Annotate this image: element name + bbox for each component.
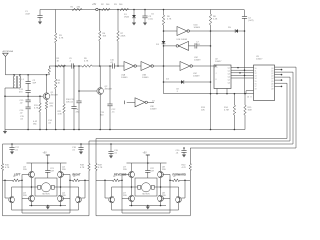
ground	[132, 23, 136, 26]
wire top rail M2	[127, 162, 167, 164]
wire base column left M1	[21, 175, 23, 199]
wire top rail M1	[27, 162, 67, 164]
resistor R6	[163, 9, 165, 11]
wire base column right M1	[69, 175, 71, 199]
ground M1	[47, 206, 49, 207]
wire driver left collector M1	[12, 187, 32, 197]
resistor base left M1	[3, 179, 13, 181]
wire base column right M2	[169, 175, 171, 199]
motor M2	[135, 178, 157, 196]
op-amp U1F spare	[127, 101, 135, 103]
svg-text:1/4027: 1/4027	[215, 61, 222, 63]
ground M2	[147, 206, 149, 207]
svg-text:J: J	[216, 73, 217, 75]
svg-text:1/4069: 1/4069	[150, 109, 157, 111]
wire bus line A	[190, 147, 296, 149]
svg-text:CL: CL	[216, 67, 218, 69]
svg-text:LEFT: LEFT	[14, 172, 21, 176]
wire input left M2	[95, 139, 97, 164]
svg-text:56P: 56P	[33, 83, 37, 85]
svg-text:1/4017: 1/4017	[256, 59, 263, 61]
wire driver right collector M2	[161, 187, 179, 197]
svg-text:1/4069: 1/4069	[194, 27, 201, 29]
svg-text:10K: 10K	[201, 110, 205, 112]
capacitor C6	[73, 66, 75, 107]
svg-text:FORWARD: FORWARD	[173, 172, 186, 176]
wire bus vertical 2	[292, 72, 294, 144]
wire	[153, 65, 180, 67]
op-amp U1B	[141, 62, 151, 71]
wire collector column right M1	[60, 163, 62, 172]
resistor R5h	[57, 65, 66, 67]
wire U2-U3	[234, 72, 254, 74]
capacitor C1	[39, 10, 41, 16]
svg-text:MOTOR: MOTOR	[142, 194, 150, 196]
svg-text:4.7K: 4.7K	[59, 38, 64, 40]
svg-text:1/4069: 1/4069	[194, 60, 201, 62]
wire driver left base M1	[4, 180, 6, 198]
wire collector column right M2	[160, 163, 162, 172]
transistor Q1	[43, 93, 50, 100]
wire U2-U3	[234, 74, 254, 76]
wire U3 out to bus 3	[278, 76, 290, 78]
resistor R10	[63, 66, 65, 104]
wire collector column left M1	[31, 163, 33, 172]
wire U3 VDD stub	[245, 93, 254, 95]
ground	[10, 152, 14, 155]
transistor Q8 top-right	[158, 172, 164, 178]
svg-text:Q2: Q2	[228, 71, 230, 73]
wire bus line D	[96, 138, 287, 140]
wire U3 VSS stub	[246, 90, 254, 92]
wire	[189, 30, 210, 32]
capacitor C18	[80, 144, 82, 148]
capacitor C20	[183, 148, 185, 151]
capacitor C16	[27, 102, 29, 107]
wire transformer bottom to ground	[14, 87, 19, 89]
transformer T1	[13, 76, 14, 79]
svg-text:4.7K: 4.7K	[80, 167, 85, 169]
wire signal line	[49, 65, 72, 67]
wire U1D node down	[210, 82, 212, 130]
transistor Q2	[97, 88, 104, 95]
wire bus line C	[89, 140, 290, 142]
IC U2 4027	[214, 65, 231, 89]
svg-text:RIGHT: RIGHT	[73, 172, 81, 176]
wire base loop M1	[22, 199, 70, 214]
svg-text:MOTOR: MOTOR	[42, 194, 50, 196]
capacitor C7	[189, 45, 196, 47]
resistor base left M2	[96, 179, 113, 181]
capacitor C21	[47, 163, 49, 171]
wire to D4	[164, 81, 182, 83]
wire U1D output down	[210, 31, 212, 82]
wire driver left collector M2	[112, 187, 132, 197]
svg-text:+9V: +9V	[143, 153, 148, 155]
wire outer loop M1	[3, 180, 90, 216]
transistor Q3b bottom-left	[29, 196, 35, 202]
svg-text:4.7K: 4.7K	[167, 19, 172, 21]
resistor R12	[46, 100, 48, 102]
resistor R3	[55, 10, 57, 34]
capacitor C17	[11, 144, 13, 148]
capacitor C22	[147, 163, 149, 171]
wire bus vertical 3	[289, 77, 291, 141]
capacitor C4	[244, 10, 246, 17]
svg-text:4.7K: 4.7K	[5, 167, 10, 169]
svg-text:.0047: .0047	[25, 14, 31, 16]
wire U3 out to bus 1	[278, 66, 296, 68]
wire U1E output	[164, 45, 177, 47]
svg-text:Q8: Q8	[271, 89, 273, 91]
wire driver emitter loop M2	[112, 203, 179, 210]
wire outer loop M2	[96, 180, 190, 216]
wire driver right base M2	[184, 180, 186, 198]
svg-text:240K: 240K	[121, 36, 126, 38]
transistor Q4 top-right	[58, 172, 64, 178]
wire Q1 base	[42, 95, 44, 97]
diode D5	[211, 30, 239, 32]
svg-text:4.7M: 4.7M	[224, 110, 229, 112]
resistor R15	[244, 94, 246, 105]
op-amp U1A	[124, 62, 134, 71]
svg-text:ANTENNA: ANTENNA	[3, 50, 14, 53]
svg-text:2N5089: 2N5089	[51, 95, 59, 97]
capacitor C10	[112, 63, 114, 68]
svg-text:Q4: Q4	[228, 77, 230, 79]
wire driver emitter loop M1	[12, 203, 79, 210]
wire +9V down right	[244, 31, 246, 94]
resistor R2	[99, 9, 101, 11]
capacitor C9	[71, 63, 73, 68]
svg-text:1/4069: 1/4069	[121, 77, 128, 79]
wire driver right base M1	[84, 180, 86, 198]
wire Q1 collector	[46, 75, 48, 93]
resistor R8	[210, 10, 212, 15]
wire	[74, 65, 82, 67]
wire antenna line	[5, 74, 49, 76]
wire U2-U3	[234, 69, 254, 71]
transistor driver right M2	[176, 197, 182, 203]
wire input left M1	[2, 144, 4, 164]
U3 output pins right	[275, 66, 279, 68]
IC U3 4017	[254, 65, 275, 101]
svg-text:+9V: +9V	[43, 153, 48, 155]
wire +9V tap M1	[47, 155, 49, 163]
svg-text:4.7K: 4.7K	[182, 167, 187, 169]
ground	[143, 23, 147, 26]
svg-text:16: 16	[247, 97, 249, 99]
svg-text:8: 8	[251, 97, 252, 99]
wire base column left M2	[121, 175, 123, 199]
resistor base right M1	[70, 179, 73, 181]
capacitor C12	[109, 66, 111, 104]
resistor R1	[72, 8, 82, 10]
svg-text:2.2K: 2.2K	[213, 19, 218, 21]
wire U3 out to bus 2	[278, 71, 293, 73]
wire collector column left M2	[131, 163, 133, 172]
diode D4	[181, 80, 184, 84]
svg-text:REVERSE: REVERSE	[114, 172, 127, 176]
svg-text:1/4069: 1/4069	[193, 76, 200, 78]
wire driver left base M2	[104, 180, 106, 198]
capacitor C3b	[27, 84, 29, 91]
motor M1	[35, 178, 57, 196]
op-amp U1C	[180, 62, 190, 71]
ground	[4, 130, 6, 132]
svg-text:15M: 15M	[248, 110, 252, 112]
wire	[164, 30, 178, 32]
transistor driver right M1	[76, 197, 82, 203]
capacitor C19	[110, 144, 112, 152]
wire bottom rail M1	[29, 205, 66, 207]
wire bias line	[164, 93, 246, 95]
wire driver right collector M1	[61, 187, 79, 197]
resistor R4	[99, 10, 101, 32]
transistor driver left M2	[109, 197, 115, 203]
antenna	[3, 53, 9, 56]
node +9V terminal	[96, 8, 98, 10]
resistor base right M2	[170, 179, 173, 181]
capacitor C11	[78, 66, 80, 101]
capacitor C2	[27, 75, 29, 82]
transistor Q7b bottom-left	[129, 196, 135, 202]
transistor Q7 top-left	[129, 172, 135, 178]
resistor R3r	[117, 9, 119, 11]
wire bus vertical 4	[286, 83, 288, 138]
wire U2-U3	[234, 77, 254, 79]
ground	[38, 22, 42, 25]
wire U3 out to bus 4	[278, 82, 287, 84]
svg-text:4.7K: 4.7K	[34, 108, 39, 110]
resistor R11	[39, 96, 41, 103]
op-amp U1D	[177, 27, 187, 36]
svg-text:3.3K: 3.3K	[58, 114, 63, 116]
capacitor C15	[27, 96, 29, 100]
wire U2-U3	[234, 67, 254, 69]
wire input right M1	[88, 141, 90, 164]
svg-text:Q1: Q1	[228, 68, 230, 70]
transistor Q8b bottom-right	[158, 196, 164, 202]
diode D3	[162, 41, 166, 44]
wire	[92, 65, 113, 67]
wire Q2 base	[79, 90, 97, 92]
wire base loop M2	[122, 199, 170, 214]
op-amp U1E	[179, 41, 189, 50]
resistor R9	[82, 65, 92, 67]
wire bottom rail M2	[129, 205, 166, 207]
ground	[182, 155, 186, 158]
transistor Q4b bottom-right	[58, 196, 64, 202]
wire +9V tap M2	[147, 155, 149, 163]
wire input right M2	[189, 148, 191, 164]
wire U2 bottom stubs	[216, 89, 218, 94]
wire bus line B	[3, 143, 294, 145]
svg-text:Q6: Q6	[228, 83, 230, 85]
ground	[79, 152, 83, 155]
resistor R14	[233, 94, 235, 105]
svg-text:(.047): (.047)	[248, 20, 254, 22]
wire ground rail	[5, 129, 245, 131]
wire bus vertical 1	[295, 67, 297, 148]
wire Q2 collector	[99, 66, 101, 88]
resistor R7	[117, 10, 119, 32]
transistor driver left M1	[9, 197, 15, 203]
wire secondary bottom line	[5, 95, 43, 97]
transistor Q3 top-left	[29, 172, 35, 178]
svg-text:4.7K: 4.7K	[98, 167, 103, 169]
svg-text:(.01): (.01)	[149, 19, 154, 21]
wire motor leads M1	[32, 186, 38, 188]
svg-text:15K: 15K	[103, 36, 107, 38]
wire top +9V rail	[40, 9, 244, 11]
capacitor C3	[144, 9, 146, 11]
svg-text:Q3: Q3	[228, 74, 230, 76]
svg-text:(W): (W)	[33, 124, 37, 126]
resistor R3b collector load	[48, 66, 50, 68]
svg-text:+9V: +9V	[92, 4, 97, 6]
resistor R5	[55, 66, 57, 79]
wire U1C out to U2 clock	[192, 65, 214, 67]
wire Q2 emitter	[99, 94, 101, 129]
svg-text:2N5089: 2N5089	[105, 89, 113, 91]
svg-text:Q5: Q5	[228, 80, 230, 82]
svg-text:1N34: 1N34	[124, 17, 130, 19]
svg-text:U1E 1/4069: U1E 1/4069	[177, 39, 188, 41]
svg-text:4.7K: 4.7K	[84, 61, 89, 63]
wire motor leads M2	[132, 186, 138, 188]
ground	[109, 156, 113, 159]
svg-text:1/4069: 1/4069	[142, 77, 149, 79]
diode D1	[133, 9, 135, 11]
wire	[115, 65, 125, 67]
wire U1D input node down	[163, 31, 165, 41]
wire	[136, 65, 141, 67]
svg-text:18: 18	[255, 89, 257, 91]
